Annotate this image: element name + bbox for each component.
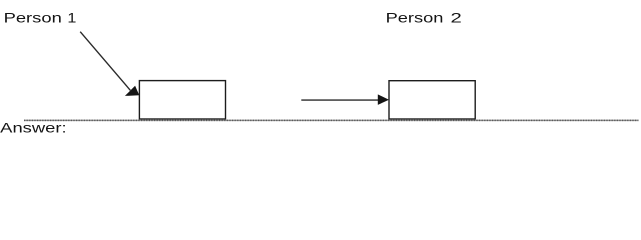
svg-text:Answer:: Answer: [0, 120, 66, 136]
svg-text:1: 1 [67, 10, 76, 26]
box person 2 [389, 81, 475, 119]
wire horizontal arrow shaft toward box 2 [301, 99, 378, 101]
svg-text:Person: Person [4, 10, 62, 26]
box person 1 [139, 81, 225, 119]
arrowhead of horizontal arrow [378, 94, 389, 105]
ground line [24, 119, 639, 121]
svg-text:2: 2 [451, 10, 463, 26]
wire diagonal arrow shaft from Person 1 label toward box 1 [80, 32, 130, 91]
ground line dash texture [24, 119, 639, 121]
arrowhead of diagonal arrow [125, 86, 139, 96]
svg-text:Person: Person [386, 10, 444, 26]
